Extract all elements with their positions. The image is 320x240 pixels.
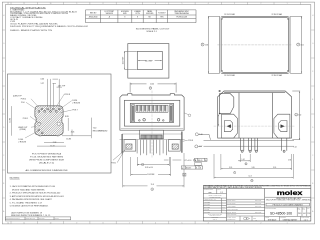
svg-text:(UNLESS SPECIFIED): (UNLESS SPECIFIED): [209, 196, 221, 198]
svg-text:DIMENSION UNITS: DIMENSION UNITS: [204, 189, 213, 191]
svg-text:FOOT PRINT VERSION A: FOOT PRINT VERSION A: [32, 153, 62, 156]
svg-text:H: H: [3, 15, 4, 17]
svg-text:1: 1: [202, 44, 203, 46]
front view right shield pin: [181, 132, 183, 153]
svg-text:11.43: 11.43: [50, 146, 54, 148]
flat blank corner notes: [224, 13, 283, 77]
svg-text:2: 2: [298, 44, 299, 46]
side view corner marks: [219, 90, 221, 91]
svg-text:4. PACKAGING SPECIFICATION: SE: 4. PACKAGING SPECIFICATION: SEE CHART: [10, 198, 53, 201]
svg-text:1 of 1: 1 of 1: [304, 219, 308, 221]
svg-text:B: B: [312, 183, 313, 185]
footprint dims above: [48, 79, 62, 110]
svg-text:2009/07/24: 2009/07/24: [255, 200, 262, 202]
svg-text:mm: mm: [208, 192, 212, 194]
front view post circles: [139, 119, 164, 122]
svg-text:SD-48500-106: SD-48500-106: [270, 211, 292, 215]
flat blank centerline: [217, 44, 292, 46]
svg-text:(SCALE 2:1): (SCALE 2:1): [39, 162, 55, 165]
svg-text:CHK'D: SMITH: CHK'D: SMITH: [227, 203, 235, 205]
svg-text:2 HOLES: 2 HOLES: [72, 103, 80, 105]
svg-text:SHIELD: BRASS PLATED WITH TIN: SHIELD: BRASS PLATED WITH TIN: [10, 29, 53, 32]
svg-text:VERSION: VERSION: [106, 13, 114, 15]
svg-text:2:1: 2:1: [220, 192, 223, 194]
svg-text:H: H: [312, 15, 313, 17]
svg-text:F: F: [3, 71, 4, 73]
proprietary notice bar: [204, 185, 310, 190]
svg-text:RECOMMENDED: RECOMMENDED: [93, 130, 108, 132]
svg-text:FOOTPRINT: FOOTPRINT: [105, 11, 114, 13]
svg-text:16.83: 16.83: [66, 138, 71, 140]
svg-text:12.7 REF: 12.7 REF: [123, 57, 125, 64]
svg-text:P02: P02: [307, 213, 310, 215]
svg-text:16.3 REF: 16.3 REF: [145, 61, 153, 63]
title text: [266, 197, 311, 202]
svg-text:48500-8110: 48500-8110: [89, 17, 98, 19]
svg-text:HOUSING: HOUSING: [121, 11, 129, 13]
svg-text:2009/07/24: 2009/07/24: [255, 206, 262, 208]
svg-text:7: 7: [129, 223, 130, 225]
svg-text:8.89 ±0.10: 8.89 ±0.10: [145, 167, 153, 169]
svg-text:8: 8: [251, 180, 252, 182]
svg-text:EC NO: 123456: EC NO: 123456: [227, 211, 236, 213]
svg-text:15.8: 15.8: [151, 184, 154, 186]
svg-text:EC NO: EC NO: [55, 218, 59, 220]
svg-text:3: 3: [234, 3, 235, 5]
shield flat blank view (top right): [220, 16, 290, 73]
svg-text:3.20: 3.20: [229, 167, 232, 169]
svg-text:9.40: 9.40: [298, 114, 301, 116]
notes block: [10, 178, 64, 217]
panel cutout inner width dim 16.3 REF: [138, 60, 162, 61]
svg-text:P.C.B. MOUNTING PATTERN: P.C.B. MOUNTING PATTERN: [30, 156, 64, 159]
svg-text:1.27 ±0.10: 1.27 ±0.10: [184, 160, 192, 162]
svg-text:2.08: 2.08: [53, 142, 57, 144]
front view side wings with shield tabs: [124, 140, 180, 152]
svg-text:MOLEX 95040 AND 95068 SERIES.: MOLEX 95040 AND 95068 SERIES.: [12, 188, 45, 191]
svg-text:11: 11: [23, 223, 25, 225]
svg-text:12: 12: [7, 223, 9, 225]
svg-text:±0.4: ±0.4: [222, 209, 225, 211]
side view right dim: [292, 91, 300, 140]
footprint blob with hatch: [35, 106, 63, 136]
svg-text:E: E: [3, 99, 4, 101]
svg-text:7: 7: [129, 3, 130, 5]
front view pins: [137, 140, 166, 156]
side view left callouts: [195, 133, 211, 148]
svg-text:ALL DIMENSIONS REF DIMENSIONS: ALL DIMENSIONS REF DIMENSIONS: [26, 169, 69, 172]
svg-text:3.20: 3.20: [273, 167, 276, 169]
svg-text:DIMENSIONS: DIMENSIONS: [212, 216, 219, 218]
datum circle near front view right edge: [188, 114, 191, 117]
svg-text:SERIES: SERIES: [265, 217, 269, 219]
svg-text:2.54: 2.54: [21, 102, 25, 104]
svg-text:2009/07/24: 2009/07/24: [255, 211, 262, 213]
datum A box: [183, 173, 186, 176]
svg-text:POS 7: POS 7: [72, 110, 77, 112]
front view bottom flange: [120, 129, 185, 140]
panel cutout view (center): [128, 44, 169, 79]
svg-text:1: 1: [287, 3, 288, 5]
svg-text:10.80: 10.80: [9, 118, 11, 123]
svg-text:POS 8: POS 8: [188, 140, 193, 142]
svg-text:3.05: 3.05: [252, 167, 255, 169]
flat blank corner notch marks: [221, 17, 288, 72]
svg-text:9: 9: [76, 3, 77, 5]
title block middle column: signatures: [227, 199, 265, 221]
svg-text:8: 8: [137, 17, 138, 19]
svg-text:1.27: 1.27: [41, 83, 45, 85]
side view pins: [241, 138, 287, 151]
caption: suggested panel cutout: [136, 28, 170, 33]
title block left column: units / scale: [203, 188, 226, 217]
svg-text:10: 10: [50, 3, 52, 5]
svg-text:CUSTOMER: CUSTOMER: [280, 217, 286, 219]
svg-text:2009/07/24: 2009/07/24: [39, 218, 45, 220]
front view side rails: [132, 105, 173, 122]
svg-text:(ZONE): (ZONE): [20, 129, 27, 131]
svg-text:4: 4: [152, 189, 153, 191]
flat blank left dim (1) 15.8: [201, 16, 220, 73]
svg-text:2009/07/24: 2009/07/24: [255, 203, 262, 205]
svg-text:TYPE: TYPE: [298, 209, 301, 211]
svg-text:6: 6: [246, 163, 247, 165]
svg-text:2.94: 2.94: [288, 159, 291, 161]
svg-text:(0.89) TYP: (0.89) TYP: [13, 95, 22, 97]
svg-text:8: 8: [103, 223, 104, 225]
svg-text:1.60: 1.60: [199, 134, 202, 136]
svg-text:POS 1: POS 1: [23, 118, 28, 120]
svg-text:7: 7: [234, 172, 235, 174]
svg-text:11.43 REF: 11.43 REF: [147, 174, 155, 176]
svg-text:REV: REV: [307, 208, 309, 210]
panel cutout height dim 12.7 REF: [124, 51, 137, 69]
front view bottom dims: [123, 153, 184, 191]
svg-text:3. APPLICATION SPECIFICATION:: 3. APPLICATION SPECIFICATION: MOLEX AS-8…: [10, 195, 64, 198]
svg-text:DRWN: SLOIK: DRWN: SLOIK: [227, 200, 235, 202]
svg-text:DOCUMENT NUMBER: DOCUMENT NUMBER: [265, 208, 276, 210]
svg-text:LAST INSPECTION NUMBER: 19: LAST INSPECTION NUMBER: 19: [11, 211, 42, 214]
svg-text:2 HOLES: 2 HOLES: [18, 142, 26, 144]
svg-text:⊕: ⊕: [182, 168, 183, 170]
svg-text:B: B: [200, 168, 201, 170]
svg-text:12.4: 12.4: [249, 175, 252, 177]
svg-text:molex: molex: [277, 190, 303, 197]
front view contact comb: [136, 105, 168, 112]
side view centerline: [214, 125, 295, 127]
svg-text:POS 8: POS 8: [65, 94, 70, 96]
svg-text:SCALE 2:1: SCALE 2:1: [146, 30, 157, 33]
footprint right dim lines: [12, 106, 92, 146]
svg-text:8.89: 8.89: [65, 116, 69, 118]
svg-text:Ø0.05: Ø0.05: [198, 160, 202, 162]
svg-text:DK/DG05 PRODUCT REQUIREMENTS B: DK/DG05 PRODUCT REQUIREMENTS BASED ON PS…: [10, 25, 88, 28]
side view left GD&T: [195, 158, 208, 161]
footprint big mount holes: [38, 122, 61, 125]
svg-text:11: 11: [23, 3, 25, 5]
svg-text:B: B: [3, 183, 4, 185]
engineering number table: [86, 10, 197, 23]
front view pcb latch block: [140, 130, 164, 139]
svg-text:F: F: [312, 71, 313, 73]
GD&T frame (position tol): [181, 166, 202, 169]
svg-text:1.02: 1.02: [242, 159, 245, 161]
side view body: [218, 91, 292, 138]
footprint leader fan: [25, 94, 72, 138]
bottom row: series / customer / sheet: [280, 216, 301, 221]
svg-text:PK-98122-008: PK-98122-008: [176, 17, 187, 19]
side view latch blobs: [222, 114, 290, 138]
footprint pin holes top rows: [38, 108, 60, 112]
svg-text:SHEET NUMBER: SHEET NUMBER: [301, 217, 309, 219]
svg-text:6. EXCEEDS CATEGORY 5E PERFORM: 6. EXCEEDS CATEGORY 5E PERFORMANCE.: [10, 205, 49, 208]
svg-text:001: 001: [303, 213, 306, 215]
product customer drawing bar: [266, 203, 310, 206]
svg-text:GROUND: GROUND: [146, 13, 154, 15]
svg-text:12: 12: [7, 3, 9, 5]
side view left small datum box: [195, 163, 202, 166]
svg-text:ENG NO: ENG NO: [90, 12, 97, 14]
front view centerline: [151, 91, 153, 158]
svg-text:3: 3: [234, 223, 235, 225]
svg-text:0.00: 0.00: [41, 79, 45, 81]
svg-text:PROJECTION: PROJECTION: [227, 219, 235, 221]
svg-text:NOTES:: NOTES:: [10, 178, 21, 180]
title block outline: [203, 185, 310, 221]
svg-text:3.05: 3.05: [71, 132, 75, 134]
svg-text:8: 8: [124, 17, 125, 19]
footprint captions: [26, 153, 69, 172]
svg-text:15.8: 15.8: [205, 44, 208, 46]
document status strip (bottom left): [5, 217, 70, 220]
svg-text:2. PRODUCT SPECIFICATION: MOLE: 2. PRODUCT SPECIFICATION: MOLEX PS-95540…: [10, 192, 61, 195]
side view height dim on left edge: [218, 115, 219, 126]
svg-text:1: 1: [287, 223, 288, 225]
svg-text:8: 8: [103, 3, 104, 5]
flat blank right dim (2) 16.6: [290, 16, 302, 73]
footprint small bottom holes: [38, 129, 43, 134]
svg-text:9: 9: [76, 223, 77, 225]
svg-text:5. P.C. BOARD THICKNESS: 1.57: 5. P.C. BOARD THICKNESS: 1.57: [10, 201, 42, 204]
svg-text:1. JACK FOR MATING WITH SHIELD: 1. JACK FOR MATING WITH SHIELDED PLUG: [10, 185, 56, 188]
document number row: [265, 207, 311, 216]
svg-text:10: 10: [50, 223, 52, 225]
side view bottom dims: [214, 154, 293, 182]
front view left shield pin: [121, 134, 123, 153]
svg-text:DOC CONTROL: DOC CONTROL: [227, 214, 237, 216]
side view pcb lines: [204, 141, 295, 147]
svg-text:±0.1: ±0.1: [222, 206, 225, 208]
svg-text:11.00: 11.00: [150, 84, 154, 86]
svg-text:POS 1: POS 1: [111, 163, 116, 165]
front view body outline: [120, 94, 184, 131]
svg-text:16.6: 16.6: [301, 44, 304, 46]
svg-text:7.40: 7.40: [93, 128, 97, 130]
technical specification text block: [10, 6, 88, 32]
svg-text:1.57: 1.57: [199, 146, 202, 148]
svg-text:E: E: [312, 99, 313, 101]
svg-text:TOOLED?: TOOLED?: [158, 12, 166, 14]
footprint view box: [8, 74, 112, 173]
svg-text:1.27 TYP: 1.27 TYP: [58, 86, 66, 88]
svg-text:1.02: 1.02: [294, 146, 297, 148]
svg-text:POS 2: POS 2: [21, 99, 26, 101]
svg-text:VIEW FROM COMPONENT SIDE: VIEW FROM COMPONENT SIDE: [29, 160, 65, 162]
front view shield tab leaders: [113, 150, 126, 161]
front view: top width dim 11.00: [130, 83, 176, 93]
